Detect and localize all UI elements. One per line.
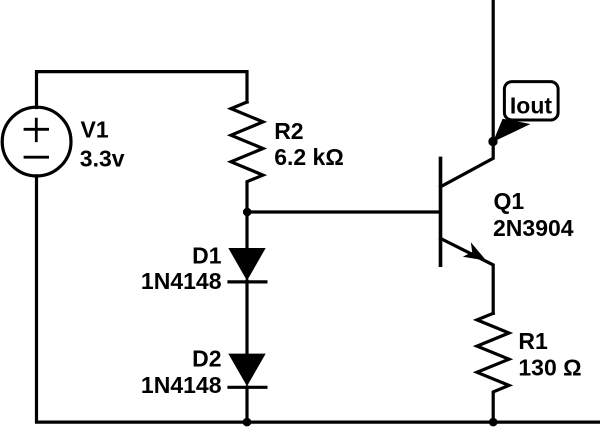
svg-text:R1: R1 xyxy=(518,328,548,354)
svg-text:1N4148: 1N4148 xyxy=(141,372,222,398)
svg-text:R2: R2 xyxy=(274,118,303,144)
svg-text:2N3904: 2N3904 xyxy=(493,215,574,241)
svg-text:Iout: Iout xyxy=(510,93,552,119)
svg-text:D2: D2 xyxy=(192,346,221,372)
svg-text:1N4148: 1N4148 xyxy=(141,268,222,294)
svg-text:V1: V1 xyxy=(81,117,109,143)
svg-text:Q1: Q1 xyxy=(494,188,525,214)
svg-text:130 Ω: 130 Ω xyxy=(518,355,581,381)
svg-text:D1: D1 xyxy=(192,243,222,269)
svg-text:3.3v: 3.3v xyxy=(80,145,125,171)
svg-text:6.2 kΩ: 6.2 kΩ xyxy=(274,144,344,170)
